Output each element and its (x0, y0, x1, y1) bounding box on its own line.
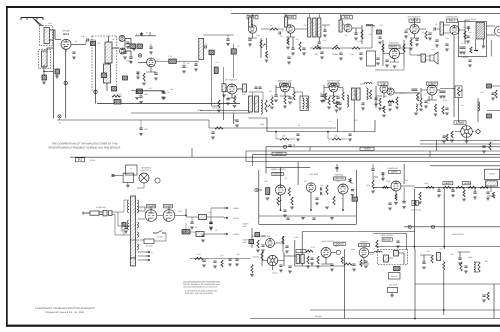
svg-text:47: 47 (136, 33, 138, 36)
ground (378, 42, 382, 44)
boxed label +275V (443, 182, 453, 185)
ground (491, 98, 495, 100)
wire (311, 21, 313, 23)
terminal arrow (146, 259, 150, 261)
svg-text:+275V: +275V (233, 217, 240, 220)
IF transformer (352, 88, 356, 100)
bus wire B+ 1 (266, 146, 500, 148)
HV cage parts (469, 26, 492, 56)
IF transformer primary (249, 96, 253, 112)
resistor R9 (112, 95, 120, 97)
tube 6AL5 video det (344, 24, 352, 32)
resistor (306, 250, 313, 252)
capacitor (226, 99, 229, 100)
capacitor (135, 92, 138, 93)
wire (375, 66, 404, 70)
ground (327, 107, 331, 109)
resistor (261, 252, 263, 260)
ground (209, 227, 213, 229)
ground rail sync (259, 215, 357, 217)
svg-text:100: 100 (112, 38, 115, 41)
2nd IF stage parts (286, 29, 305, 48)
resistor (360, 260, 362, 267)
oscillator coil L4 (105, 42, 112, 63)
wire (289, 138, 295, 140)
capacitor (235, 120, 238, 121)
capacitor (226, 39, 229, 40)
svg-text:2.2M: 2.2M (383, 95, 387, 98)
resistor (352, 197, 358, 201)
wire (275, 132, 277, 139)
tube 6BQ6 hor output (321, 248, 331, 258)
ground (409, 48, 413, 50)
svg-text:47: 47 (146, 32, 148, 35)
svg-text:.047: .047 (334, 245, 338, 248)
plug connector on wire (112, 174, 115, 177)
ground (283, 215, 287, 217)
svg-text:150: 150 (296, 38, 299, 41)
resistor (372, 180, 374, 189)
resistor (431, 255, 433, 263)
tube 6CB6 4TH PIX IF AMP (329, 83, 338, 92)
capacitor (194, 64, 197, 65)
wire (86, 40, 87, 44)
wire (191, 217, 193, 222)
capacitor (473, 192, 476, 193)
capacitor (403, 202, 406, 203)
sound IF stage parts (138, 61, 156, 76)
capacitor (404, 31, 407, 32)
svg-text:1ST VIDEO IF: 1ST VIDEO IF (225, 79, 238, 82)
connector left (255, 188, 258, 191)
connector in tuner lead (64, 81, 67, 84)
boxed label 12AU7 (389, 170, 401, 173)
row2 stage1 parts (276, 85, 294, 96)
ground (286, 47, 290, 49)
svg-text:6K6GT: 6K6GT (390, 45, 399, 49)
resistor (215, 127, 223, 129)
tube sound det 6T8 (380, 85, 388, 93)
interstage transformer box (300, 96, 309, 111)
capacitor (466, 36, 469, 37)
bus wire B+ long (70, 156, 500, 158)
ground (154, 78, 158, 80)
svg-text:NOISE LIMITER: NOISE LIMITER (271, 168, 286, 171)
wire (278, 29, 283, 31)
CRT socket 17BP4 (461, 126, 473, 138)
ground (482, 151, 486, 153)
capacitor (459, 47, 462, 48)
resistor (382, 44, 384, 52)
svg-text:.01: .01 (157, 58, 160, 61)
potentiometer wiper (460, 90, 462, 92)
boxed label 6SN7GT (272, 172, 284, 175)
wire (328, 138, 332, 140)
sound det label (378, 82, 388, 85)
svg-text:CKT BKR: CKT BKR (145, 245, 153, 248)
wire (140, 91, 142, 97)
ground (222, 95, 226, 97)
connector on lower rail 2 (431, 225, 434, 228)
capacitor (285, 246, 288, 247)
ground (126, 47, 130, 49)
capacitor C3 (72, 52, 75, 53)
wire (136, 91, 138, 93)
ground (395, 107, 399, 109)
tube 6K6GT audio output (390, 49, 400, 59)
oscillator triode (119, 36, 125, 42)
ground (364, 266, 368, 268)
resistor (328, 97, 330, 105)
ground (320, 57, 324, 59)
bus wire B+ 2 (246, 150, 500, 152)
capacitor (451, 190, 454, 191)
svg-text:+135V: +135V (233, 233, 240, 236)
junction node (43, 71, 45, 73)
capacitor (435, 40, 438, 41)
circuit breaker (144, 239, 154, 244)
boxed label 6CB6 (247, 16, 258, 19)
resistor (456, 186, 464, 188)
ground (451, 195, 455, 197)
ground (374, 104, 378, 106)
wire top (204, 34, 234, 36)
AGC divider chain (310, 47, 372, 49)
ground (124, 231, 128, 233)
capacitor (442, 91, 445, 92)
resistor (460, 262, 462, 271)
HV capacitor circle (336, 250, 340, 254)
peaking coil (364, 82, 372, 84)
trap parts (316, 25, 330, 42)
wire rail drop (265, 147, 267, 174)
capacitor (437, 190, 440, 191)
AC wire (112, 212, 130, 226)
tube 6SN7GT sync amp (276, 185, 286, 195)
svg-text:ON-OFF: ON-OFF (157, 236, 163, 239)
capacitor (442, 136, 445, 137)
capacitor (359, 53, 362, 54)
capacitor (201, 235, 204, 236)
1st IF stage parts (248, 29, 270, 58)
capacitor (291, 48, 294, 49)
resistor (463, 190, 465, 197)
right bottom parts (458, 252, 471, 258)
junction node (327, 131, 329, 133)
capacitor (422, 262, 425, 263)
capacitor (288, 145, 291, 146)
ground (450, 140, 454, 142)
wire (127, 182, 129, 185)
resistor R6 (91, 42, 96, 46)
ground (402, 207, 406, 209)
resistor (221, 260, 223, 267)
ground (325, 207, 329, 209)
junction node (280, 209, 282, 211)
svg-text:6SN7GT: 6SN7GT (334, 177, 345, 180)
svg-text:270: 270 (205, 43, 208, 46)
wire vert long (344, 249, 346, 319)
svg-text:LIGHT PLUG: LIGHT PLUG (141, 169, 152, 172)
resistor (470, 47, 472, 53)
resistor (257, 240, 259, 248)
capacitor (385, 60, 388, 61)
svg-text:6SN7GT: 6SN7GT (273, 173, 284, 176)
resistor (251, 265, 253, 273)
wire (327, 132, 329, 139)
resistor grid (266, 188, 270, 195)
resistor (487, 114, 492, 118)
capacitor (434, 27, 435, 30)
ground (385, 65, 389, 67)
capacitor (381, 173, 384, 174)
capacitor (411, 89, 414, 90)
svg-text:A PHOTOFACT STANDARD NOTATION: A PHOTOFACT STANDARD NOTATION SCHEMATIC (35, 307, 95, 310)
svg-text:HOR OSC: HOR OSC (335, 174, 344, 177)
focus coil box (389, 273, 401, 280)
boxed label 6AL5 (447, 19, 458, 22)
boxed label 6CB6 (328, 83, 339, 86)
wire drop (340, 14, 342, 20)
right edge parts (478, 86, 500, 122)
capacitor (288, 97, 291, 98)
capacitor (213, 261, 216, 262)
resistor (332, 138, 341, 140)
wire riser 3 (233, 44, 235, 78)
transformer bottom (131, 258, 136, 266)
svg-text:INTERLOCK: INTERLOCK (96, 206, 107, 209)
wire (372, 164, 374, 169)
tube V1 RF amp 6BC5 (61, 39, 71, 49)
svg-text:17BP4: 17BP4 (456, 120, 465, 124)
audio output transformer (476, 23, 485, 40)
ground (354, 38, 358, 40)
connector on AGC bus (58, 115, 61, 118)
peaking coil (366, 24, 373, 25)
coil secondary (367, 88, 369, 100)
potentiometer wiper (263, 44, 265, 46)
wire (130, 239, 144, 241)
resistor (464, 31, 466, 39)
potentiometer wiper (279, 200, 281, 202)
wire (294, 92, 303, 98)
capacitor (139, 96, 142, 97)
antenna coil shield (dashed) (40, 26, 53, 46)
potentiometer wiper (316, 45, 318, 47)
ground (418, 202, 422, 204)
ground (265, 60, 269, 62)
sound takeoff coil tall (199, 38, 204, 59)
ground (394, 203, 398, 205)
capacitor (415, 39, 418, 40)
wire (342, 24, 344, 26)
wire to speaker 2 (487, 34, 496, 36)
wire lower (295, 265, 345, 267)
capacitor (352, 264, 355, 265)
tube 5U4G rectifier 2 (163, 210, 175, 222)
ground (462, 199, 466, 201)
svg-text:SOCKET TERMINALS TO CHASSIS GN: SOCKET TERMINALS TO CHASSIS GND. LINE (183, 283, 221, 286)
resistor (426, 186, 434, 188)
resistor bleeder (182, 230, 190, 235)
svg-text:1 AUDIO: 1 AUDIO (461, 56, 468, 59)
wire (309, 147, 311, 151)
svg-text:IF NO OTHER VOLTAGE IS GIVEN O: IF NO OTHER VOLTAGE IS GIVEN ON (185, 289, 218, 292)
capacitor (321, 187, 322, 190)
svg-text:100: 100 (451, 253, 454, 256)
capacitor (338, 103, 341, 104)
boxed label +275V (272, 152, 286, 155)
capacitor (414, 89, 417, 90)
capacitor (248, 39, 251, 40)
svg-text:VERT OUTPUT: VERT OUTPUT (381, 234, 395, 237)
svg-text:4.7: 4.7 (310, 101, 313, 104)
wire (59, 118, 61, 120)
capacitor (468, 60, 471, 61)
ground (306, 266, 310, 268)
svg-text:2.2M: 2.2M (404, 179, 408, 182)
wire to output transformer (400, 48, 422, 55)
heater winding taps (138, 252, 146, 260)
resistor R 1st IF plate (270, 28, 278, 30)
capacitor (258, 87, 261, 88)
ground (445, 113, 449, 115)
svg-text:68: 68 (225, 90, 227, 93)
svg-text:150: 150 (131, 102, 134, 105)
wire (336, 119, 338, 132)
resistor (342, 92, 344, 100)
svg-text:100K: 100K (334, 53, 339, 56)
capacitor C7 (129, 57, 132, 58)
ground (135, 98, 139, 100)
resistor (495, 90, 497, 98)
ground (459, 52, 463, 54)
yoke coil H (394, 251, 399, 257)
ground (233, 106, 237, 108)
resistor (396, 97, 398, 105)
video det parts (352, 25, 375, 44)
det coil (339, 20, 342, 32)
ground (359, 58, 363, 60)
resistor (420, 98, 422, 107)
resistor (291, 197, 293, 205)
coil filter (374, 251, 382, 253)
resistor R5 (55, 69, 60, 74)
capacitor (296, 134, 299, 135)
ground (424, 106, 428, 108)
svg-text:40: 40 (195, 226, 197, 229)
boxed label 6SN7GT (333, 177, 345, 180)
svg-text:+275V: +275V (275, 153, 283, 156)
contrast control box (455, 86, 462, 98)
resistor contrast (457, 87, 459, 96)
svg-text:.05: .05 (167, 91, 170, 94)
svg-text:.001: .001 (144, 93, 148, 96)
resistor R8 (112, 87, 117, 92)
svg-text:.05: .05 (332, 53, 335, 56)
potentiometer wiper (335, 45, 337, 47)
capacitor (361, 103, 364, 104)
capacitor (467, 27, 470, 28)
svg-text:L: L (41, 76, 42, 79)
ground (213, 266, 217, 268)
disc transformer (440, 22, 443, 35)
ion trap box (388, 288, 398, 293)
sync takeoff box (367, 51, 376, 66)
resistor (293, 92, 295, 100)
filter choke L (199, 215, 207, 220)
vert output wiring (262, 232, 415, 271)
wire (474, 261, 479, 263)
ground (142, 83, 146, 85)
oscillator coil shield (dashed) (39, 50, 51, 69)
coil (416, 104, 417, 111)
ground (348, 139, 352, 141)
resistor R7 (102, 73, 107, 78)
wire (195, 61, 197, 64)
capacitor (482, 146, 485, 147)
resistor AGC 2 (332, 47, 340, 49)
capacitor (491, 93, 494, 94)
wire (252, 92, 254, 96)
ground (437, 195, 441, 197)
svg-text:CONTROL, USE VALUE SHOWN.: CONTROL, USE VALUE SHOWN. (185, 292, 213, 295)
interlock plug label (76, 158, 85, 162)
ground (468, 65, 472, 67)
connector on rail (283, 145, 286, 148)
AGC bus wire (57, 120, 336, 128)
svg-text:5U4G: 5U4G (178, 210, 183, 213)
capacitor (228, 259, 231, 260)
wire (458, 98, 460, 123)
resistor pot (383, 106, 385, 113)
terminal +385V (224, 207, 228, 209)
junction node (443, 309, 445, 311)
pilot lamp (139, 173, 149, 183)
resistor (492, 192, 494, 198)
tuner wiring (44, 30, 86, 119)
wire rail join right (436, 141, 438, 152)
antenna twin-lead (33, 18, 43, 27)
ground (161, 97, 165, 99)
resistor (443, 186, 451, 188)
wire (443, 261, 445, 263)
boxed label 5U4G (164, 205, 173, 208)
IF input coil (249, 17, 252, 27)
svg-text:(HOR HOLD): (HOR HOLD) (411, 209, 421, 212)
resistor (344, 263, 352, 265)
tube video amp (427, 85, 437, 95)
ground (388, 109, 392, 111)
wire (436, 28, 440, 30)
svg-text:.005: .005 (468, 31, 472, 34)
coil (478, 102, 480, 111)
resistor (403, 44, 405, 52)
ground (376, 63, 380, 65)
ground (439, 96, 443, 98)
wire det out (371, 26, 373, 48)
output transformer (421, 54, 426, 62)
volume wiper (382, 107, 384, 109)
tube 1st video IF 6CB6 (227, 84, 237, 94)
ground (288, 271, 292, 273)
junction node (342, 209, 344, 211)
svg-text:P1: P1 (78, 158, 82, 162)
ground (256, 250, 260, 252)
svg-text:+385V: +385V (233, 207, 240, 210)
svg-text:220: 220 (435, 23, 438, 26)
wire lamp (137, 183, 144, 188)
